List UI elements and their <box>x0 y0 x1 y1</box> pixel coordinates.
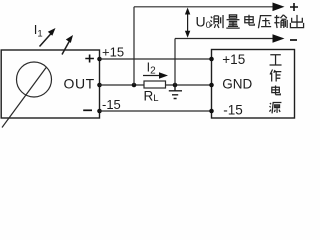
sense wire minus (vertical) <box>174 39 176 86</box>
current arrow I2 <box>143 72 168 78</box>
node +15 on supply <box>209 57 214 62</box>
svg-text:+15: +15 <box>102 45 124 60</box>
label RL <box>144 88 159 104</box>
glyph 源 <box>269 103 281 114</box>
sense wire plus (vertical) <box>133 7 135 85</box>
label U0 <box>196 14 211 32</box>
slash through circle <box>2 67 47 128</box>
label -15 left <box>102 97 121 112</box>
node A (left tap) <box>132 83 137 88</box>
node +15 on sensor <box>97 57 102 62</box>
label +15 left <box>102 45 124 60</box>
glyph 电 (supply) <box>272 86 281 95</box>
output line U0 minus <box>175 34 285 43</box>
sensor box <box>1 50 99 118</box>
label -15 pin <box>223 102 243 117</box>
minus sign output <box>290 39 297 41</box>
glyph 出 <box>290 15 303 28</box>
glyph 输 <box>274 15 287 28</box>
node -15 on sensor <box>97 109 102 114</box>
light arrow 1 <box>40 28 56 47</box>
plus terminal <box>85 55 94 63</box>
wire OUT segment right <box>166 84 212 86</box>
label GND pin <box>222 76 252 91</box>
node -15 on supply <box>209 109 214 114</box>
label +15 pin <box>222 52 245 67</box>
svg-text:-15: -15 <box>102 97 121 112</box>
node GND on supply <box>209 83 214 88</box>
label 测量电压输出 (hand-drawn glyphs) <box>210 15 303 28</box>
svg-text:+15: +15 <box>222 52 245 67</box>
glyph 压 <box>258 16 271 29</box>
power supply box <box>212 50 295 119</box>
svg-text:GND: GND <box>222 76 252 91</box>
glyph 作 <box>270 70 281 82</box>
wire -15 <box>100 110 212 112</box>
minus terminal <box>83 109 92 111</box>
svg-text:-15: -15 <box>223 102 243 117</box>
glyph 测 <box>210 15 223 28</box>
current source symbol U1 (circle) <box>17 62 52 97</box>
light arrow 2 <box>62 35 73 55</box>
label 工作电源 (hand-drawn glyphs) <box>269 55 281 114</box>
glyph 电 <box>245 15 255 25</box>
ground <box>169 85 182 99</box>
glyph 工 <box>270 55 282 65</box>
output line U0 plus <box>134 3 285 12</box>
glyph 量 <box>226 15 239 28</box>
wire OUT segment left <box>100 84 145 86</box>
label I2 <box>147 61 156 77</box>
label OUT <box>64 75 95 91</box>
plus sign output <box>290 3 298 11</box>
label I1 <box>34 22 43 40</box>
dimension arrow U0 <box>185 8 190 38</box>
resistor RL <box>144 81 166 88</box>
wire +15 <box>100 58 212 60</box>
node B (right tap) <box>173 83 178 88</box>
node OUT on sensor <box>97 83 102 88</box>
svg-text:OUT: OUT <box>64 75 95 91</box>
